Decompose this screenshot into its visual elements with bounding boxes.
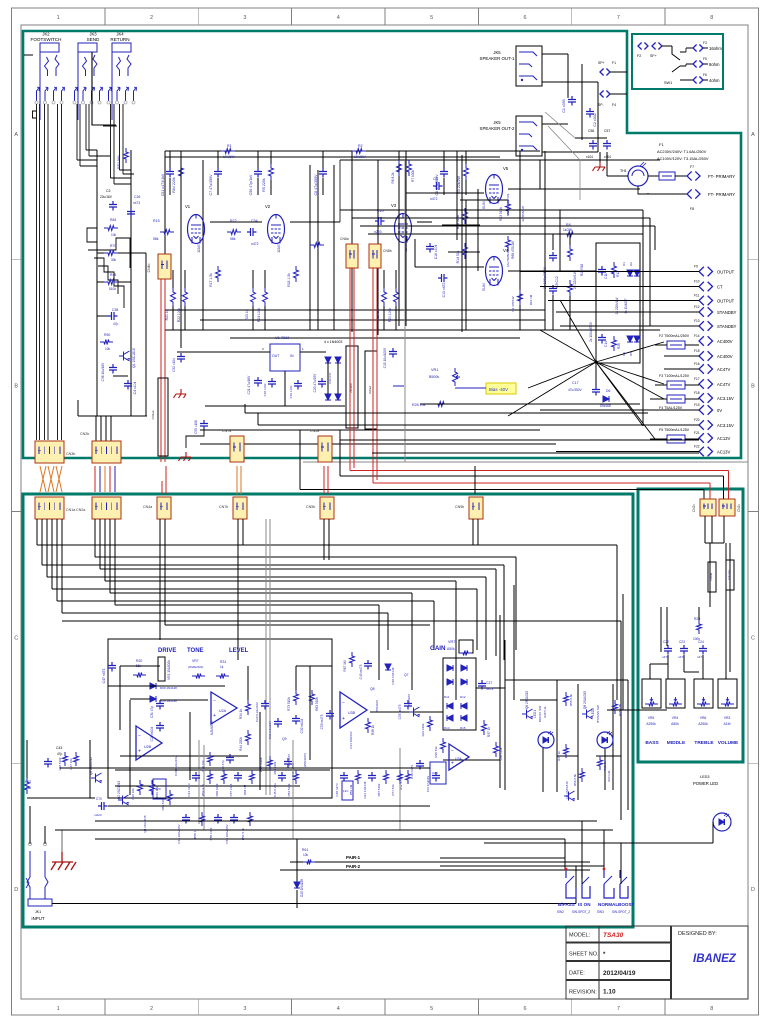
svg-text:F10: F10 [694,280,700,284]
svg-text:R35 51k: R35 51k [434,746,438,758]
svg-text:c104: c104 [604,155,611,159]
svg-text:4: 4 [337,1006,340,1012]
svg-text:C23: C23 [679,640,685,644]
svg-text:C38: C38 [112,308,118,312]
svg-text:A1M: A1M [724,722,731,726]
svg-text:C3: C3 [433,177,438,181]
svg-text:CN7b: CN7b [219,505,228,509]
svg-text:C48 n473: C48 n473 [335,783,339,796]
svg-text:R84: R84 [110,218,116,222]
svg-text:C33 2.2u/16V: C33 2.2u/16V [268,721,272,739]
svg-text:F3 T100mAL/125V: F3 T100mAL/125V [659,374,690,378]
svg-text:R6 8.2k: R6 8.2k [391,172,395,183]
svg-text:n223: n223 [374,230,382,234]
svg-text:SW1: SW1 [664,81,672,85]
svg-text:2: 2 [150,15,153,21]
svg-text:JK3: JK3 [89,32,97,37]
svg-text:F1: F1 [612,61,616,65]
svg-text:C21 47u/16V: C21 47u/16V [247,375,251,394]
svg-text:U3A: U3A [455,757,462,761]
svg-text:R5 220k: R5 220k [262,178,266,192]
svg-text:C31 47p: C31 47p [150,706,154,718]
svg-text:CN2c: CN2c [737,504,741,512]
svg-text:F12: F12 [694,305,700,309]
svg-text:1: 1 [57,15,60,21]
svg-text:R37 1k: R37 1k [487,727,491,738]
svg-text:F22: F22 [694,445,700,449]
svg-text:OUTPUT: OUTPUT [717,270,735,275]
svg-text:C70: C70 [96,797,102,801]
svg-text:F13: F13 [694,319,700,323]
svg-text:C18 c103: C18 c103 [263,383,267,396]
svg-text:B: B [751,384,755,390]
svg-text:C7 47u/350V: C7 47u/350V [209,174,213,196]
svg-text:TREBLE: TREBLE [694,740,714,746]
svg-text:25K30AY: 25K30AY [375,700,379,712]
svg-text:R17 1.5k: R17 1.5k [209,273,213,287]
svg-text:R31: R31 [220,660,226,664]
svg-text:JK1: JK1 [35,910,42,914]
svg-text:VR6: VR6 [700,716,707,720]
svg-text:C57 c104: C57 c104 [229,783,233,796]
svg-text:R49 1k: R49 1k [557,751,561,761]
svg-text:DRIVE: DRIVE [158,648,176,654]
svg-text:VR7: VR7 [192,659,199,663]
svg-text:R48 5.1k: R48 5.1k [543,706,547,718]
svg-text:F3: F3 [703,41,707,45]
svg-text:CN8b: CN8b [383,249,392,253]
svg-text:VR1: VR1 [431,368,438,372]
svg-text:C56: C56 [588,129,594,133]
svg-text:AC3.15V: AC3.15V [717,396,734,401]
svg-text:D20 1N4148: D20 1N4148 [300,879,304,897]
svg-text:C52 c104: C52 c104 [172,358,176,372]
svg-text:1k/2W: 1k/2W [563,228,572,232]
svg-text:−: − [213,699,216,705]
svg-text:Q6 2SA1015: Q6 2SA1015 [525,691,529,709]
svg-text:JK2: JK2 [42,32,50,37]
svg-text:n472: n472 [251,242,259,246]
svg-text:6: 6 [524,1006,527,1012]
svg-text:C45 0.22u: C45 0.22u [273,783,277,797]
svg-text:SHEET NO.:: SHEET NO.: [569,952,601,958]
svg-text:R52 4.7k: R52 4.7k [201,784,205,797]
svg-text:2012/04/19: 2012/04/19 [603,970,636,977]
svg-text:12AX7: 12AX7 [277,243,281,253]
svg-text:JK4: JK4 [116,32,124,37]
svg-text:CN7a: CN7a [222,429,231,433]
svg-text:U2D: U2D [432,771,439,775]
svg-text:SP-: SP- [598,103,604,107]
svg-text:BASS: BASS [645,740,659,746]
svg-text:R50: R50 [104,333,110,337]
svg-text:R48 510k: R48 510k [58,757,62,770]
svg-text:INPUT: INPUT [31,916,44,921]
svg-text:A250k: A250k [698,722,708,726]
svg-text:LEVEL: LEVEL [229,648,249,654]
svg-text:22u/16V: 22u/16V [100,195,113,199]
svg-text:LED3: LED3 [700,775,710,779]
svg-text:C2 c302: C2 c302 [593,113,597,126]
svg-text:R71 51k: R71 51k [391,784,395,796]
svg-text:F6: F6 [703,73,707,77]
svg-text:OUT: OUT [272,354,280,358]
svg-text:5: 5 [430,1006,433,1012]
svg-text:C40 m473: C40 m473 [410,765,414,779]
svg-text:12AX7: 12AX7 [197,243,201,253]
svg-text:IS ON: IS ON [578,902,591,907]
svg-text:D12: D12 [460,695,466,699]
svg-text:U2B: U2B [144,745,152,749]
svg-text:−: − [451,749,454,755]
svg-text:R38 1k: R38 1k [371,725,375,736]
svg-text:AC100V/120V: T3.15AL/250V: AC100V/120V: T3.15AL/250V [657,156,709,161]
svg-text:DATE:: DATE: [569,971,585,977]
svg-text:C3: C3 [106,189,110,193]
svg-text:R18 1.5k: R18 1.5k [287,273,291,287]
svg-text:C29 0.22u/16V: C29 0.22u/16V [255,702,259,722]
svg-text:C14: C14 [604,341,608,347]
svg-text:CN1a CN2a: CN1a CN2a [66,508,85,512]
svg-text:R66 110k: R66 110k [499,747,503,760]
svg-text:Bias -40V: Bias -40V [489,387,508,392]
svg-text:58k: 58k [153,237,159,241]
svg-text:R45: R45 [110,273,116,277]
svg-text:STANDBY: STANDBY [717,310,737,315]
svg-text:D21 1N4148: D21 1N4148 [363,781,367,798]
svg-text:BiPASS: BiPASS [558,902,575,907]
svg-text:47u/350V: 47u/350V [568,388,583,392]
svg-text:R55 6.8k: R55 6.8k [569,694,573,707]
svg-text:C49 m473: C49 m473 [359,664,363,679]
svg-text:C44 n473: C44 n473 [187,783,191,796]
svg-text:CN4b: CN4b [147,264,151,273]
svg-text:D6: D6 [606,389,610,393]
svg-text:SF+: SF+ [650,54,657,58]
svg-text:510k: 510k [109,287,116,291]
svg-text:4ohm: 4ohm [709,78,720,83]
svg-text:R20: R20 [136,659,142,663]
svg-text:C36 10u/16V: C36 10u/16V [101,362,105,381]
svg-text:R65 510k: R65 510k [161,797,165,810]
svg-text:R13 510k: R13 510k [499,207,503,221]
svg-text:D18 1N4148: D18 1N4148 [391,667,395,684]
svg-text:C9 C12: C9 C12 [555,276,559,288]
svg-text:R7 100k: R7 100k [411,170,415,182]
svg-text:R21 1k: R21 1k [165,309,169,320]
svg-text:B: B [14,384,18,390]
svg-text:−: − [138,733,141,739]
svg-text:VR7': VR7' [448,640,456,644]
svg-text:C19 c103: C19 c103 [289,385,293,398]
svg-text:C4 c104: C4 c104 [133,382,137,395]
svg-text:+: + [213,713,216,719]
svg-text:U2A: U2A [219,709,227,713]
svg-text:D1: D1 [622,262,626,266]
svg-text:(25K30AY): (25K30AY) [303,753,307,767]
svg-text:CN8a: CN8a [340,237,349,241]
svg-text:R61: R61 [302,848,308,852]
svg-text:F18: F18 [694,391,700,395]
svg-text:IN: IN [290,354,294,358]
svg-text:C16 c104: C16 c104 [434,245,438,260]
svg-text:C20 47u/25V: C20 47u/25V [313,373,317,392]
svg-text:R61 1k: R61 1k [603,761,607,771]
svg-text:F5 T500mAL/125V: F5 T500mAL/125V [659,428,690,432]
svg-text:F20: F20 [694,418,700,422]
svg-text:D: D [751,887,755,893]
svg-text:RETURN: RETURN [110,37,129,42]
svg-text:10k: 10k [111,233,117,237]
svg-text:R20 100k: R20 100k [388,307,392,322]
svg-text:C59 100u/16V: C59 100u/16V [225,824,229,843]
svg-text:F21: F21 [694,431,700,435]
svg-text:AC13V: AC13V [717,436,730,441]
svg-text:JK5: JK5 [493,50,501,55]
svg-text:A: A [751,132,755,138]
svg-text:FT- PRIMARY: FT- PRIMARY [708,174,735,179]
svg-text:POWER LED: POWER LED [693,781,718,786]
svg-text:R9 470/1W: R9 470/1W [511,296,515,311]
svg-text:AC13V: AC13V [717,450,730,455]
svg-text:10k: 10k [303,853,309,857]
svg-text:C55 c106: C55 c106 [194,420,198,434]
svg-text:BYPASS SW: BYPASS SW [596,705,600,723]
svg-text:R11 R16: R11 R16 [580,264,584,277]
svg-text:JK5: JK5 [493,120,501,125]
svg-text:SW3: SW3 [597,910,604,914]
svg-text:D16 D17: D16 D17 [328,372,332,383]
svg-text:R22 100k: R22 100k [177,307,181,322]
svg-text:C32 m104: C32 m104 [300,718,304,733]
svg-text:0V: 0V [717,408,722,413]
svg-text:F7: F7 [690,165,694,169]
svg-text:R82 96k: R82 96k [117,155,121,169]
svg-text:R44 220k: R44 220k [239,737,243,751]
svg-text:VR3: VR3 [724,716,731,720]
svg-text:F15: F15 [694,349,700,353]
svg-text:2x 100u/350V: 2x 100u/350V [543,266,547,289]
svg-text:U2C: U2C [155,787,162,791]
svg-text:CN4a: CN4a [143,505,152,509]
svg-text:LED2: LED2 [591,708,595,716]
svg-text:C22: C22 [663,640,669,644]
svg-text:F11: F11 [694,294,699,298]
svg-text:7: 7 [617,15,620,21]
svg-text:C: C [14,635,18,641]
svg-text:m223: m223 [94,813,102,817]
svg-text:Q7: Q7 [404,673,409,677]
svg-text:C47 n473: C47 n473 [102,669,106,684]
svg-text:8ohm: 8ohm [709,62,720,67]
svg-text:D09 1N4148: D09 1N4148 [160,686,177,690]
svg-text:SW-SPDT_2: SW-SPDT_2 [612,910,630,914]
svg-text:SW2: SW2 [557,910,564,914]
svg-text:R67 1M: R67 1M [343,660,347,672]
svg-text:U1 7810: U1 7810 [275,336,289,340]
svg-text:58k: 58k [230,237,236,241]
svg-text:10k: 10k [105,347,111,351]
svg-text:C: C [751,635,755,641]
svg-text:3: 3 [243,15,246,21]
svg-text:C17: C17 [572,381,579,385]
svg-text:1: 1 [57,1006,60,1012]
svg-text:D2: D2 [629,262,633,266]
svg-text:Treble: Treble [709,572,713,581]
svg-text:C55 m473: C55 m473 [398,704,402,719]
svg-text:F5: F5 [703,57,707,61]
svg-text:R68 1M: R68 1M [243,784,247,795]
svg-text:F8: F8 [690,207,694,211]
svg-text:NJM4556: NJM4556 [210,721,214,735]
svg-text:A50k: A50k [447,647,455,651]
svg-text:MODEL:: MODEL: [569,933,591,939]
svg-text:F2: F2 [637,54,641,58]
svg-text:F4: F4 [612,103,616,107]
svg-text:CN9b: CN9b [455,505,464,509]
svg-text:2: 2 [150,1006,153,1012]
svg-text:C8 47u/350V: C8 47u/350V [314,174,318,196]
svg-text:F9: F9 [694,265,698,269]
svg-text:n472: n472 [430,197,438,201]
svg-text:F1: F1 [659,142,664,147]
svg-text:R53 1M: R53 1M [349,784,353,795]
svg-text:−: − [342,700,345,706]
svg-text:R64 220k: R64 220k [172,177,176,193]
svg-text:R69 100k: R69 100k [215,783,219,796]
svg-text:30k: 30k [111,258,117,262]
svg-text:3: 3 [243,1006,246,1012]
svg-text:8: 8 [710,1006,713,1012]
svg-text:C25 m104: C25 m104 [150,726,154,741]
svg-text:R24 100k: R24 100k [257,307,261,322]
svg-text:F16: F16 [694,362,700,366]
svg-text:AC47V: AC47V [717,382,730,387]
svg-text:VR4: VR4 [672,716,679,720]
svg-text:R2: R2 [358,144,363,148]
svg-text:TONE: TONE [187,648,204,654]
svg-text:F2 T500mAL/250V: F2 T500mAL/250V [659,334,690,338]
svg-text:R70: R70 [110,244,116,248]
svg-text:C11: C11 [604,273,608,279]
svg-text:AC3.15V: AC3.15V [717,423,734,428]
svg-text:+: + [138,749,141,755]
svg-text:VR5: VR5 [648,716,655,720]
svg-text:BOOST SW: BOOST SW [538,706,542,722]
svg-text:R10 1M: R10 1M [529,294,533,305]
svg-text:F14: F14 [694,334,700,338]
svg-text:R63 510k: R63 510k [315,697,319,711]
svg-text:C13 n472: C13 n472 [442,283,446,298]
svg-text:R34 1k: R34 1k [239,709,243,720]
svg-text:DW468: DW468 [600,404,611,408]
svg-text:NORMAL: NORMAL [598,902,618,907]
svg-text:F4 T5AL/125V: F4 T5AL/125V [659,406,683,410]
svg-text:Q8 2SA1015: Q8 2SA1015 [583,691,587,709]
svg-text:(W20k/40k): (W20k/40k) [188,665,203,669]
svg-text:16ohm: 16ohm [709,46,722,51]
svg-text:U3B: U3B [348,711,356,715]
svg-text:C30 47p: C30 47p [221,760,225,772]
svg-text:SEND: SEND [87,37,100,42]
svg-text:C58 c104: C58 c104 [209,827,213,840]
svg-text:5: 5 [430,15,433,21]
svg-text:VR2 15A500k: VR2 15A500k [167,660,171,680]
svg-text:R68 470/1W: R68 470/1W [511,241,515,259]
svg-text:PAIR-1: PAIR-1 [346,855,361,860]
svg-text:GAIN: GAIN [430,645,446,652]
svg-text:R23 1k: R23 1k [245,309,249,320]
svg-text:F17: F17 [694,377,700,381]
svg-text:EL84: EL84 [482,283,486,291]
svg-text:1k: 1k [220,665,224,669]
svg-text:R26: R26 [617,343,621,349]
svg-text:47p: 47p [57,752,63,756]
svg-text:R60 6.8k: R60 6.8k [607,770,611,782]
svg-text:LED1: LED1 [533,710,537,718]
svg-text:CN5a: CN5a [310,429,319,433]
svg-text:STANDBY: STANDBY [717,324,737,329]
svg-text:R3 22k/2W: R3 22k/2W [457,176,461,194]
svg-text:C57: C57 [604,129,610,133]
svg-text:D15: D15 [460,726,466,730]
svg-text:A50k: A50k [671,722,679,726]
svg-text:D14: D14 [444,726,450,730]
svg-text:47p: 47p [113,322,119,326]
svg-text:V5: V5 [503,166,509,171]
svg-text:TSA30: TSA30 [603,932,624,939]
svg-text:4: 4 [337,15,340,21]
svg-text:6: 6 [524,15,527,21]
svg-text:V3: V3 [391,203,397,208]
svg-text:R33 220k: R33 220k [421,723,425,736]
svg-text:SW-SPDT_2: SW-SPDT_2 [572,910,590,914]
svg-text:MIDDLE: MIDDLE [667,740,686,746]
svg-text:AC400V: AC400V [717,354,733,359]
svg-text:2SK30AY: 2SK30AY [407,694,411,707]
svg-text:D11: D11 [444,695,450,699]
svg-text:+: + [342,716,345,722]
svg-text:D: D [14,887,18,893]
svg-text:R57 510k: R57 510k [377,783,381,796]
svg-text:R15: R15 [153,219,160,223]
svg-text:IBANEZ: IBANEZ [693,953,737,965]
svg-text:CN3ed: CN3ed [151,410,155,419]
svg-text:C1 c393: C1 c393 [562,99,566,112]
svg-text:PAIR-2: PAIR-2 [346,864,361,869]
svg-text:C43: C43 [56,746,62,750]
svg-text:AC47V: AC47V [717,367,730,372]
svg-text:Q9: Q9 [282,737,287,741]
svg-text:n473: n473 [486,687,493,691]
svg-text:C46 100u/16V: C46 100u/16V [177,824,181,843]
svg-text:Q8: Q8 [370,687,375,691]
svg-text:TH1: TH1 [620,169,627,173]
svg-text:+: + [451,760,454,766]
svg-text:AC230V/240V: T1.6AL/250V: AC230V/240V: T1.6AL/250V [657,149,707,154]
svg-text:R50 6.8k: R50 6.8k [573,774,577,787]
svg-text:2x 100u/350V: 2x 100u/350V [589,321,593,342]
svg-text:V2: V2 [265,204,271,209]
svg-text:C53 m473: C53 m473 [320,714,324,729]
svg-text:FT- PRIMARY: FT- PRIMARY [708,192,735,197]
svg-text:SP+: SP+ [598,61,605,65]
svg-text:A250k: A250k [646,722,656,726]
svg-text:C36 0.22u/16V: C36 0.22u/16V [174,756,178,776]
svg-text:2xRed: 2xRed [368,386,372,395]
svg-text:c104: c104 [586,155,593,159]
svg-text:CN2c: CN2c [692,504,696,512]
